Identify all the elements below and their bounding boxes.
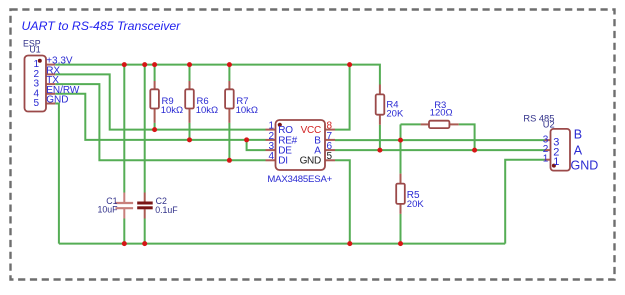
junction +3.3V/VCC branch (347, 62, 352, 67)
resistor R6 (185, 81, 218, 123)
capacitor C1 (97, 193, 133, 219)
connector U2 RS 485 (523, 114, 598, 173)
junction rail/IC GND (347, 241, 352, 246)
IC U3 MAX3485ESA+ (266, 120, 336, 185)
wire GND from U1 (55, 104, 59, 244)
junction +3.3V/C1 (122, 62, 127, 67)
resistor R5 (396, 174, 424, 214)
svg-text:10kΩ: 10kΩ (161, 105, 183, 116)
capacitor C2 (137, 193, 178, 219)
resistor R9 (150, 81, 183, 123)
svg-text:20K: 20K (407, 199, 425, 210)
junction RE#/R6 (187, 137, 192, 142)
resistor R4 (376, 85, 404, 125)
wire C2 branch bottom (144, 219, 146, 244)
wire B line (335, 139, 545, 141)
svg-text:1: 1 (543, 154, 549, 165)
wire IC GND to rail (335, 160, 350, 243)
wire A line (335, 149, 545, 151)
junction B/R5 (398, 138, 403, 143)
wire R9 top (154, 65, 156, 81)
junction A/R4 (377, 148, 382, 153)
junction rail/C1 (122, 241, 127, 246)
wire C2 branch top (144, 65, 146, 193)
svg-text:UART to RS-485 Transceiver: UART to RS-485 Transceiver (22, 19, 182, 33)
connector U1 ESP (23, 38, 55, 111)
svg-text:20K: 20K (386, 108, 404, 119)
svg-text:A: A (574, 144, 583, 158)
junction rail/R5 (398, 241, 403, 246)
wire +3.3V rail (55, 65, 380, 85)
wire R7 bottom (228, 123, 230, 160)
svg-text:MAX3485ESA+: MAX3485ESA+ (267, 174, 332, 185)
wire R7 top (228, 65, 230, 81)
wire R3/R5 vertical on B (400, 124, 402, 173)
svg-text:GND: GND (571, 158, 599, 172)
svg-text:GND: GND (46, 95, 68, 106)
svg-text:GND: GND (300, 156, 321, 167)
wire R4 bottom to A (379, 125, 381, 150)
wire R6 bottom (189, 123, 191, 140)
junction RE#/DE tie (244, 137, 249, 142)
svg-text:5: 5 (327, 151, 333, 162)
svg-text:1: 1 (553, 156, 559, 168)
junction +3.3V/C2 (142, 62, 147, 67)
junction rail/C2 (142, 241, 147, 246)
junction +3.3V/R6 (187, 62, 192, 67)
junction +3.3V/R9 (152, 62, 157, 67)
wire VCC branch (335, 65, 350, 130)
wire R9 bottom (154, 123, 156, 130)
junction RO/R9 (152, 127, 157, 132)
resistor R3 (421, 100, 459, 128)
svg-text:10kΩ: 10kΩ (236, 105, 258, 116)
wire R3 left lead (401, 123, 421, 125)
wire bottom GND rail (59, 243, 505, 245)
svg-text:DI: DI (278, 156, 287, 167)
wire R5 bottom to rail (400, 214, 402, 244)
svg-text:10uF: 10uF (97, 205, 118, 215)
svg-text:U1: U1 (29, 45, 40, 55)
svg-text:120Ω: 120Ω (430, 107, 453, 118)
wire RE#-DE tie (247, 140, 266, 150)
wire EN/RW to RE# (55, 94, 265, 140)
wire R6 top (189, 65, 191, 81)
wire R3 right to A (459, 124, 475, 150)
resistor R7 (225, 81, 258, 123)
junction A/R3 (472, 148, 477, 153)
svg-text:B: B (574, 127, 582, 141)
junction +3.3V/R7 (227, 62, 232, 67)
wire C1 branch bottom (123, 219, 125, 244)
svg-text:5: 5 (34, 98, 40, 109)
wire C1 branch top (123, 65, 125, 193)
junction DI/R7 (227, 158, 232, 163)
svg-text:0.1uF: 0.1uF (155, 205, 178, 215)
wire U2 GND (505, 160, 544, 244)
wire RX to RO (55, 74, 265, 129)
wire TX to DI (55, 84, 265, 160)
svg-text:4: 4 (268, 151, 274, 162)
svg-text:10kΩ: 10kΩ (196, 105, 218, 116)
